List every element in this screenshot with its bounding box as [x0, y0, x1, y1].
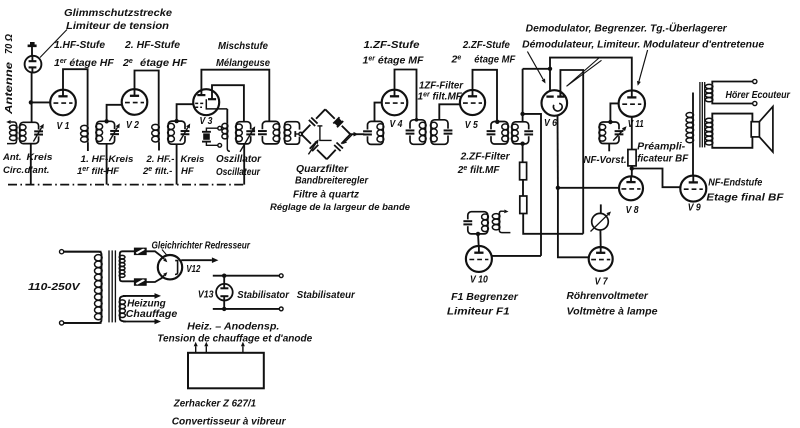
node V13 top	[222, 274, 226, 278]
svg-text:V 3: V 3	[200, 115, 213, 127]
wire V5 anode bracket	[473, 70, 498, 122]
IF tank after quartz filter	[368, 121, 384, 144]
antenna terminal	[28, 43, 37, 46]
heater output arrow bottom	[123, 321, 155, 323]
wire node A to antenna tank	[31, 102, 33, 122]
svg-text:2.ZF-Stufe: 2.ZF-Stufe	[462, 39, 510, 51]
svg-text:Filtre à quartz: Filtre à quartz	[293, 189, 360, 201]
svg-text:Gleichrichter Redresseur: Gleichrichter Redresseur	[152, 241, 251, 252]
svg-text:Circ.: Circ.	[3, 165, 24, 176]
wire V1 anode bracket	[63, 69, 88, 125]
svg-text:Quarzfilter: Quarzfilter	[296, 164, 349, 175]
leader to V6 right (outline arrow)	[567, 58, 602, 87]
wire 1.ZF right tank to V5 grid	[439, 104, 460, 120]
svg-text:Heiz. – Anodensp.: Heiz. – Anodensp.	[187, 322, 279, 333]
wire 2.ZF right tank to resistor	[522, 144, 524, 162]
svg-text:V 9: V 9	[688, 202, 701, 214]
svg-text:Stabilisator: Stabilisator	[237, 290, 290, 301]
svg-text:V13: V13	[198, 289, 214, 301]
speaker	[751, 122, 759, 137]
svg-text:Demodulator, Begrenzer. Tg.-Üb: Demodulator, Begrenzer. Tg.-Überlagerer	[526, 24, 728, 35]
svg-text:V 10: V 10	[470, 274, 488, 286]
tube V12 (rectifier)	[158, 255, 182, 279]
wire mains bottom	[64, 322, 102, 324]
wire V6 output to V7	[558, 188, 589, 257]
oscillator tank circuit	[236, 122, 251, 144]
bridge arm upper-right with quartz crystal	[325, 109, 335, 118]
svg-text:Kreis: Kreis	[27, 152, 53, 163]
svg-text:Etage final BF: Etage final BF	[706, 192, 784, 204]
node 2.ZF right tank bottom	[520, 142, 524, 146]
svg-text:V 6: V 6	[544, 117, 557, 129]
svg-text:NF-Vorst.: NF-Vorst.	[584, 155, 627, 166]
2.ZF-Filter left tank	[491, 122, 508, 145]
label Antenne 70 Ohm (vertical)	[3, 34, 15, 115]
headphone winding	[711, 84, 713, 102]
oscillator coupling coil	[226, 109, 228, 123]
headphone terminal bottom	[753, 101, 757, 105]
svg-text:2e filt.-: 2e filt.-	[142, 166, 172, 177]
wire 2.HF tank to gang line	[176, 144, 178, 184]
svg-text:Stabilisateur: Stabilisateur	[297, 290, 356, 301]
leader line to glow tube	[40, 30, 67, 58]
svg-text:Ant.: Ant.	[2, 152, 21, 163]
vibrator converter box	[188, 353, 264, 389]
antenna tank circuit (Ant. Kreis)	[20, 122, 39, 143]
svg-text:d'ant.: d'ant.	[25, 165, 50, 176]
tube V3 (mixer)	[193, 89, 219, 115]
node 1.HF tank top	[104, 119, 108, 123]
wire node A to V1 grid	[31, 101, 51, 103]
tube V5	[460, 90, 485, 115]
svg-text:2e filt.MF: 2e filt.MF	[457, 165, 501, 176]
node 1.ZF left tank top	[415, 118, 419, 122]
glow tube (Glimmschutzstrecke) surge arrester	[25, 56, 42, 73]
wire 2.ZF right tank top rise	[522, 69, 524, 122]
resistor R3 (Preamp coupling)	[628, 150, 636, 166]
wire V2 anode bracket	[135, 71, 159, 125]
wire 2.ZF junction to V10 drop	[523, 114, 541, 256]
2.ZF-Filter right tank	[512, 122, 529, 144]
svg-text:V 4: V 4	[390, 118, 403, 130]
wire V9 anode to output transformer	[692, 143, 694, 176]
meter M1 (indicator)	[592, 213, 609, 230]
F1 tank circuit	[468, 212, 488, 234]
stabilizer rail terminal bottom	[279, 307, 283, 311]
wire 1.HF tank to gang line	[106, 144, 108, 185]
svg-text:Oscillateur: Oscillateur	[216, 167, 261, 178]
node A (antenna/V1 grid junction)	[29, 100, 33, 104]
2.HF tank circuit	[168, 121, 185, 144]
wire meter to V7	[599, 230, 601, 247]
wire V3 outer anode bracket	[201, 70, 269, 122]
svg-text:Démodulateur, Limiteur. Modula: Démodulateur, Limiteur. Modulateur d'ent…	[522, 40, 765, 51]
mains terminal bottom	[60, 321, 64, 325]
1.ZF-Filter right tank	[431, 120, 448, 145]
tube V7	[589, 247, 613, 271]
node 2.ZF top junction	[520, 112, 524, 116]
svg-text:Bandbreiteregler: Bandbreiteregler	[295, 176, 369, 187]
wire D1 to V12	[146, 251, 165, 259]
stabilizer rail terminal top	[279, 274, 283, 278]
svg-text:1ZF-Filter: 1ZF-Filter	[419, 81, 464, 92]
svg-text:V 1: V 1	[57, 120, 70, 132]
svg-text:110-250V: 110-250V	[28, 281, 81, 293]
svg-text:Mischstufe: Mischstufe	[218, 40, 268, 52]
tube V2	[122, 89, 148, 115]
svg-text:Réglage de la largeur de bande: Réglage de la largeur de bande	[270, 202, 411, 213]
node bridge left vertex	[299, 132, 302, 135]
tube V1	[50, 90, 76, 116]
tube V11	[619, 90, 645, 116]
HT secondary winding	[120, 251, 135, 281]
wire V3 inner anode bracket	[212, 85, 244, 122]
heater output arrow top	[123, 295, 155, 297]
tube V8	[619, 176, 643, 200]
resistor R2	[520, 196, 527, 214]
svg-text:Heizung: Heizung	[127, 299, 166, 310]
svg-text:1.ZF-Stufe: 1.ZF-Stufe	[364, 39, 420, 51]
wire V6 cathode down	[557, 116, 559, 188]
wire R3 to node	[631, 166, 633, 169]
1.HF interstage primary coil	[87, 125, 89, 142]
quartz filter output wire with arrow	[350, 133, 353, 135]
wire junction up to top bus	[550, 58, 632, 97]
mains terminal top	[60, 250, 64, 254]
1.HF tank circuit	[96, 121, 114, 144]
power transformer primary	[64, 252, 102, 323]
output transformer core	[699, 82, 701, 147]
bridge arm upper-left with capacitor	[301, 125, 310, 134]
node V8 input	[630, 166, 634, 170]
leader to V11	[639, 50, 648, 81]
bridge arm lower-left with trimmer capacitor	[301, 134, 311, 144]
antenna coupling coil	[11, 121, 14, 123]
mixer output tank circuit	[285, 122, 300, 145]
svg-text:V 8: V 8	[626, 204, 639, 216]
meter stub	[600, 204, 602, 213]
wire 2.ZF to V6 left plate	[523, 68, 550, 70]
NF-Vorst tank circuit	[600, 122, 620, 144]
power transformer core	[108, 250, 110, 322]
F1 coupling coil with arrow	[498, 214, 500, 231]
bridge arm lower-right with differential capacitor	[327, 150, 336, 160]
wire headphone terminal top	[712, 82, 752, 85]
wire V11 anode to resistor	[631, 117, 633, 150]
wire R1 to R2	[522, 180, 524, 196]
wire 2.HF tank to V3 grid	[177, 104, 194, 121]
svg-text:Antenne: Antenne	[3, 62, 15, 115]
svg-text:V 7: V 7	[595, 276, 609, 288]
stabilizer top rail	[213, 275, 279, 277]
svg-text:Limiteur F1: Limiteur F1	[447, 307, 510, 318]
svg-text:Convertisseur à vibreur: Convertisseur à vibreur	[172, 416, 287, 428]
svg-text:Limiteur de tension: Limiteur de tension	[66, 20, 169, 32]
wire tank to V4 grid	[375, 103, 382, 122]
box output arrow 3	[242, 346, 244, 353]
svg-text:Kreis: Kreis	[181, 154, 205, 165]
B+ output arrow	[181, 259, 212, 261]
wire oscillator tank to gang line	[243, 144, 245, 185]
wire headphone terminal bottom	[712, 102, 752, 104]
headphone terminal top	[753, 79, 757, 83]
wire V6 right plate return	[560, 70, 583, 234]
node NF tank top	[608, 120, 612, 124]
wire 1.HF tank to V2 grid	[107, 105, 122, 122]
svg-text:V 2: V 2	[126, 119, 139, 131]
node 2.HF tank top	[174, 119, 178, 123]
node 2.ZF left tank top	[495, 120, 499, 124]
svg-text:ficateur BF: ficateur BF	[637, 154, 689, 165]
crystal socket pin bottom	[218, 143, 222, 147]
svg-text:Voltmètre à lampe: Voltmètre à lampe	[567, 307, 658, 318]
speaker winding	[711, 118, 713, 145]
wire junction down to V6 left plate	[549, 69, 551, 97]
wire speaker top	[712, 114, 752, 122]
svg-text:Mélangeuse: Mélangeuse	[216, 57, 270, 69]
tube V6 (demodulator)	[542, 90, 568, 116]
resistor R1	[520, 162, 527, 180]
svg-text:2. HF.-: 2. HF.-	[146, 154, 175, 165]
node V13 bottom	[222, 307, 226, 311]
svg-text:NF-Endstufe: NF-Endstufe	[708, 178, 762, 189]
svg-text:V12: V12	[186, 263, 200, 275]
output transformer primary coil	[692, 112, 694, 142]
svg-text:Chauffage: Chauffage	[126, 309, 178, 320]
leader to V12	[162, 250, 168, 257]
coupling tap into bridge	[294, 131, 296, 137]
wire speaker bottom	[712, 137, 752, 148]
2.HF interstage primary coil	[158, 124, 160, 142]
wire drop to V10 grid	[492, 255, 541, 257]
svg-text:HF: HF	[181, 166, 194, 177]
box output arrow 1	[195, 346, 197, 353]
svg-text:étage HF: étage HF	[140, 57, 188, 69]
wire V11 grid to NF tank	[610, 103, 618, 122]
svg-text:F1 Begrenzer: F1 Begrenzer	[451, 292, 519, 303]
svg-text:étage MF: étage MF	[474, 54, 516, 66]
svg-text:2. HF-Stufe: 2. HF-Stufe	[124, 39, 180, 51]
tube V10	[466, 246, 492, 272]
svg-text:Tension de chauffage et d'anod: Tension de chauffage et d'anode	[157, 333, 312, 345]
wire node to V9 grid	[632, 169, 681, 188]
box output arrow 2	[205, 346, 207, 353]
crystal socket pin top	[218, 126, 222, 130]
mixer plate tank circuit	[262, 121, 279, 143]
node F1 tank bottom	[476, 232, 480, 236]
wire NF tank stub	[608, 144, 610, 152]
wire glow tube to grid node	[31, 73, 33, 103]
svg-text:Zerhacker Z 627/1: Zerhacker Z 627/1	[173, 399, 257, 410]
1.ZF-Filter left tank	[410, 120, 426, 145]
wire V6 output to V8 grid	[558, 187, 619, 189]
ganged tuning dash-dot line	[8, 184, 245, 186]
adjustment arrow on differential capacitor	[346, 135, 352, 141]
svg-text:Hörer Ecouteur: Hörer Ecouteur	[726, 90, 791, 101]
svg-text:Glimmschutzstrecke: Glimmschutzstrecke	[64, 7, 172, 19]
node V6 plate junction	[548, 67, 552, 71]
wire V4 anode bracket	[395, 70, 417, 120]
tube V13 (stabilizer)	[223, 276, 225, 284]
rectifier D1	[135, 248, 147, 254]
stabilizer bottom rail	[213, 308, 279, 310]
crystal Y1 (oscillator quartz)	[202, 131, 211, 133]
wire mains top	[64, 251, 102, 253]
tube V9	[680, 176, 706, 202]
wire D2 to V12	[146, 276, 165, 282]
heater secondary winding	[120, 296, 126, 322]
bridge inner tap wire	[317, 125, 322, 127]
wire F1 tank to V10	[477, 234, 480, 246]
wire node to V8 plate	[631, 169, 633, 183]
svg-text:1.HF-Stufe: 1.HF-Stufe	[54, 39, 105, 51]
leader to V6 left	[527, 52, 543, 80]
svg-text:70 Ω: 70 Ω	[3, 34, 15, 54]
svg-text:2.ZF-Filter: 2.ZF-Filter	[460, 152, 511, 163]
wire antenna tank to gang line	[30, 144, 32, 185]
svg-text:V 11: V 11	[628, 118, 644, 130]
node V6 output junction	[556, 186, 560, 190]
svg-text:1. HF-Kreis: 1. HF-Kreis	[81, 154, 134, 165]
svg-text:Préampli-: Préampli-	[637, 142, 686, 153]
wire R2 to detector return	[523, 214, 583, 234]
svg-text:Röhrenvoltmeter: Röhrenvoltmeter	[567, 291, 649, 302]
svg-text:Oszillator: Oszillator	[216, 154, 262, 165]
tube V4	[382, 90, 408, 116]
rectifier D2	[135, 279, 147, 285]
svg-text:V 5: V 5	[465, 119, 478, 131]
